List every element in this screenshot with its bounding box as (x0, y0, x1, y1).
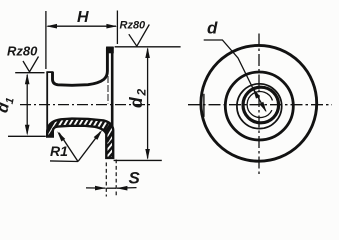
circle flange d1 (225, 72, 293, 140)
extension line d1 bottom (8, 135, 46, 137)
extension line H left (45, 11, 47, 69)
wire left flange left face (46, 72, 48, 136)
radius callout R1 (50, 130, 102, 162)
label d2 rotated (126, 89, 149, 109)
wire right wall right face (111, 48, 114, 157)
dimension d2 line with arrows (145, 47, 150, 160)
extension line S left (dashed) (105, 163, 107, 197)
hatching of section band (42, 113, 149, 191)
svg-text:H: H (77, 9, 89, 26)
label d1 rotated (0, 95, 17, 115)
svg-text:d: d (207, 19, 218, 38)
right view vertical centerline (258, 34, 260, 176)
circle bore d (247, 92, 272, 118)
centerline left view (20, 104, 150, 106)
surface finish Rz80 left (7, 44, 39, 72)
svg-text:d: d (126, 97, 146, 108)
wire right wall left face lower part (107, 76, 109, 104)
svg-text:Rz80: Rz80 (7, 44, 38, 59)
svg-text:2: 2 (135, 89, 149, 97)
surface finish Rz80 top-right (120, 20, 150, 47)
svg-text:S: S (129, 169, 141, 188)
right view horizontal centerline (188, 104, 332, 106)
svg-text:R1: R1 (50, 143, 68, 159)
extension line d2 bottom (114, 159, 162, 161)
wire left flange top edge (46, 71, 53, 73)
extension line H right (116, 11, 118, 45)
wire outer profile top half (53, 48, 108, 85)
section band (sheet cross-section, lower half) (47, 119, 113, 158)
wire right wall top cap (106, 46, 113, 48)
circle body (237, 84, 282, 129)
dimension H line with arrows (46, 24, 117, 29)
dimension d1 line with arrows (25, 73, 30, 135)
svg-text:Rz80: Rz80 (120, 20, 147, 32)
alignment tick (203, 94, 205, 117)
leader d with label (204, 19, 267, 113)
circle hub thick (243, 87, 279, 123)
extension line d1 top (15, 72, 44, 74)
circle outer d2 (201, 45, 317, 161)
dimension S arrows (86, 186, 137, 191)
extension line S right (dashed) (115, 160, 117, 197)
extension line d2 top (115, 46, 181, 48)
